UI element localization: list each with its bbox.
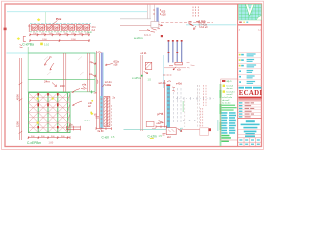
- dashed verticals right: [193, 7, 198, 18]
- svg-text:e4a: e4a: [157, 122, 162, 125]
- header red mark: [222, 80, 225, 82]
- yellow vent markers in grid: [37, 98, 39, 100]
- dashed red-gray vertical far left: [111, 105, 113, 127]
- top curl mark: [98, 52, 102, 53]
- dashed red horizontal: [161, 22, 213, 24]
- four mullion strips: [168, 41, 183, 63]
- panel interior red mullion pairs: [64, 53, 90, 92]
- svg-text:c-xPm: c-xPm: [132, 76, 141, 80]
- bottom dimension: [96, 127, 112, 130]
- svg-text:1:80: 1:80: [49, 142, 54, 145]
- green block rows: [222, 105, 237, 111]
- svg-text:6a 80: 6a 80: [98, 130, 105, 133]
- green vertical mullion lines: [38, 93, 67, 133]
- bottom dashed rect line with red end box: [181, 129, 209, 131]
- red dashes right of strip: [172, 87, 175, 91]
- beam profile horizontal lines: [120, 18, 151, 20]
- bottom green dashed line: [30, 31, 88, 33]
- red bracket mark: [23, 36, 26, 41]
- red cap on strip top: [166, 84, 170, 86]
- svg-text:b=1.3: b=1.3: [144, 33, 151, 37]
- thick cyan mullion strip: [167, 86, 170, 128]
- svg-text:da xm: da xm: [227, 88, 233, 90]
- green bottom rows: [221, 135, 231, 142]
- dotted centerline with plus marks: [176, 97, 214, 100]
- svg-text:da xm2: da xm2: [222, 100, 230, 102]
- left end marks: [28, 24, 31, 32]
- dim ticks left: [19, 83, 23, 134]
- baseline under strips: [164, 67, 186, 69]
- left annotations: [92, 62, 96, 64]
- red dashed verticals above white box: [201, 108, 203, 127]
- svg-text:#40: #40: [60, 84, 65, 88]
- cyan highlight on strip bottom: [100, 96, 102, 128]
- svg-text:12a: 12a: [69, 123, 74, 126]
- mullion box row: [31, 25, 89, 31]
- svg-text:4500: 4500: [16, 94, 20, 100]
- right-side annotations of elevation: [72, 89, 82, 106]
- small white box: [151, 22, 159, 28]
- svg-text:Em: Em: [32, 26, 36, 30]
- white box right: [200, 128, 209, 136]
- green left band: [220, 84, 222, 146]
- drawing title cell: [244, 131, 257, 133]
- small dots row: [183, 119, 195, 121]
- project cell: [238, 117, 262, 119]
- marks under box: [163, 133, 166, 135]
- svg-text:C-xm: C-xm: [102, 136, 110, 140]
- yellow marker left: [90, 112, 93, 115]
- red dashed verticals right: [204, 85, 206, 106]
- main red vertical: [164, 80, 166, 128]
- yellow diamond marker: [37, 18, 41, 21]
- pale green vertical: [182, 101, 184, 112]
- sheet main border frame: [5, 4, 262, 147]
- small dim cluster below elevation right: [67, 126, 81, 131]
- red dashes on cyan strip: [167, 89, 170, 121]
- svg-text:a-xKm: a-xKm: [134, 36, 143, 40]
- red dash row above strip: [163, 74, 171, 76]
- map image cyan: [239, 4, 262, 20]
- border zone tick: [4, 28, 7, 31]
- svg-text:Em: Em: [62, 26, 66, 30]
- legend dots: [239, 22, 242, 23]
- small table rows: [238, 101, 262, 115]
- red fitting marks on mullions: [37, 93, 58, 128]
- svg-text:kx 2a 4e: kx 2a 4e: [222, 103, 231, 105]
- cyan tick outside: [217, 120, 218, 131]
- sheet outer margin line: [2, 1, 264, 149]
- svg-text:C-xPBa: C-xPBa: [22, 43, 34, 47]
- wide panel view above elevation: [28, 53, 95, 92]
- bottom hatched boxes: [104, 97, 110, 127]
- gray dashed glass lines: [174, 88, 181, 122]
- bottom grid: [238, 138, 262, 147]
- cyan datum line bottom center: [124, 129, 167, 131]
- table border: [221, 79, 238, 140]
- svg-text:1200: 1200: [42, 39, 48, 41]
- annotation arrows above elevation: [44, 58, 54, 70]
- company name red strip: [238, 97, 261, 99]
- dimension line row 1: [29, 33, 90, 36]
- logo cyan band: [239, 87, 262, 89]
- svg-text:xA: xA: [89, 73, 92, 76]
- cyan datum line top right: [186, 24, 237, 26]
- signature rows content: [239, 53, 256, 84]
- svg-text:x4a: x4a: [82, 82, 87, 86]
- blue anodized strip: [101, 53, 103, 129]
- svg-text:x28: x28: [114, 64, 119, 67]
- svg-text:Em: Em: [39, 26, 43, 30]
- faint green pick line in plan detail: [45, 12, 47, 23]
- strip bottom box: [175, 62, 182, 65]
- cyan schedule rows: [221, 112, 236, 134]
- diagonal lattice hatch in each panel: [28, 93, 70, 133]
- long cyan datum line top: [7, 11, 147, 13]
- dashed rectangle glass panel: [185, 85, 200, 127]
- svg-text:1:10: 1:10: [44, 42, 50, 46]
- yellow diamond left of dim: [17, 37, 20, 40]
- svg-text:ax m2: ax m2: [227, 94, 234, 96]
- green extension line left: [27, 47, 29, 93]
- map border: [239, 4, 262, 20]
- gray dash vertical: [197, 85, 199, 104]
- faint diagonal glass marks in panel: [44, 57, 84, 76]
- verticals from top border: [147, 5, 154, 22]
- red arrow right of box: [178, 129, 183, 132]
- cyan edge line right: [163, 55, 165, 88]
- faint red dashes right of profile: [187, 63, 195, 69]
- svg-text:24m: 24m: [44, 79, 50, 83]
- green note lines: [222, 86, 235, 105]
- svg-text:Em: Em: [77, 26, 81, 30]
- svg-text:Pxx: Pxx: [56, 17, 62, 21]
- mullion hatch: [32, 25, 91, 30]
- map white patch bottom right: [256, 16, 261, 20]
- red dashes beside strip: [154, 9, 161, 15]
- svg-text:w kx2 a4e: w kx2 a4e: [222, 97, 233, 99]
- cyan dashed top edge: [30, 22, 91, 24]
- dimension line row 2: [29, 39, 90, 42]
- yellow squares: [223, 85, 225, 87]
- svg-text:1200: 1200: [71, 39, 77, 41]
- small detail box left of junction: [146, 121, 154, 126]
- thick red line under map: [238, 24, 262, 26]
- svg-text:kx 2a4 e: kx 2a4 e: [227, 91, 236, 93]
- svg-text:e40d: e40d: [176, 81, 182, 85]
- svg-text:C-xJm: C-xJm: [148, 134, 158, 138]
- small red dim numbers: [33, 33, 89, 41]
- elevation grid frame: [28, 93, 70, 133]
- svg-text:ECADI: ECADI: [239, 90, 263, 97]
- red value text in each box: [32, 26, 88, 30]
- map green grid: [239, 4, 262, 20]
- blue-gray profile strip: [156, 8, 158, 22]
- pale cyan edge line: [103, 53, 105, 129]
- svg-text:f 2x4 e0: f 2x4 e0: [199, 26, 208, 29]
- svg-text:e2 d1: e2 d1: [141, 52, 148, 55]
- red marks under box: [139, 30, 150, 32]
- red dashes on cyan strip: [101, 99, 103, 123]
- sill white box: [166, 128, 176, 135]
- svg-text:C-xEPBm: C-xEPBm: [27, 141, 41, 145]
- svg-text:Em: Em: [69, 26, 73, 30]
- pale red transom lines: [28, 98, 70, 128]
- long cyan datum line mid-left: [7, 52, 98, 54]
- svg-text:ap-n: ap-n: [227, 80, 232, 83]
- bottom dimension line: [27, 136, 70, 139]
- svg-text:x28: x28: [162, 14, 167, 17]
- map white road V: [246, 4, 254, 16]
- svg-text:1200: 1200: [16, 121, 20, 127]
- signature rows separators: [238, 52, 262, 85]
- dimension extension double lines: [19, 58, 21, 140]
- svg-text:n40a: n40a: [105, 83, 112, 87]
- title block separator line: [237, 4, 239, 147]
- svg-text:Em: Em: [54, 26, 58, 30]
- red frame lines: [96, 51, 98, 129]
- svg-text:Em: Em: [84, 26, 88, 30]
